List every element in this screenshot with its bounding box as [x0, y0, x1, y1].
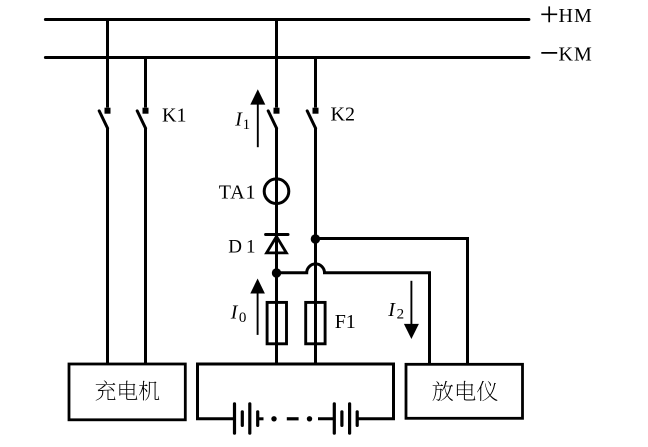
fuse (left, unlabeled) [267, 302, 286, 343]
svg-text:D: D [228, 237, 242, 258]
fuse F1 [306, 302, 325, 343]
wire switch K2 pole 2 through node A and fuse F1 to battery [314, 129, 317, 365]
label I1 [234, 109, 250, 134]
label I2 [387, 299, 404, 323]
diode D1 [266, 235, 288, 253]
junction node A [311, 234, 320, 243]
label 放电仪 [433, 381, 498, 401]
svg-text:K2: K2 [331, 104, 355, 126]
wire +HM bus to switch K2 pole 1 [275, 20, 278, 108]
svg-text:HM: HM [559, 5, 593, 27]
bus +HM [45, 18, 529, 21]
label -KM [541, 43, 592, 65]
svg-text:TA1: TA1 [219, 182, 256, 204]
label I0 [230, 302, 247, 327]
discharge meter box [406, 364, 523, 418]
switch K2 (double-pole) [268, 108, 318, 129]
svg-text:1: 1 [246, 237, 256, 258]
wire switch K1 pole 1 to charger [106, 129, 109, 365]
wire battery stub right [318, 417, 334, 420]
wire switch K1 pole 2 to charger [144, 129, 147, 365]
battery GB cells (left group) [235, 404, 258, 433]
wire -KM bus to switch K2 pole 2 [314, 58, 317, 108]
wire node A to discharge meter [316, 239, 468, 365]
charger box [69, 364, 185, 420]
wire diode D1 through node B and fuse to battery [275, 235, 278, 365]
svg-text:K1: K1 [162, 105, 186, 127]
battery GB cells (right group) [334, 404, 357, 433]
omitted cells dots and dash [271, 416, 312, 421]
wire node B to discharge meter (hop over) [277, 264, 430, 364]
label +HM [541, 5, 592, 27]
wire -KM bus to switch K1 pole 2 [144, 58, 147, 108]
svg-text:F1: F1 [335, 311, 356, 333]
bus -KM [45, 56, 529, 59]
svg-text:I: I [230, 302, 239, 324]
wire battery stub left [258, 417, 264, 420]
label 充电机 [96, 380, 160, 400]
svg-text:KM: KM [559, 43, 593, 65]
current arrow I0 [250, 279, 265, 335]
current arrow I1 [250, 89, 265, 147]
label D1 [228, 237, 255, 258]
wire +HM bus to switch K1 pole 1 [106, 20, 109, 108]
current transformer TA1 [264, 179, 289, 204]
junction node B [272, 268, 281, 277]
svg-text:0: 0 [239, 310, 247, 326]
wire battery enclosure (left lead, top rail, right lead) [198, 364, 394, 419]
svg-text:1: 1 [243, 117, 251, 133]
current arrow I2 [404, 281, 419, 339]
wire switch K2 pole 1 to diode D1 [275, 129, 278, 235]
svg-text:2: 2 [397, 307, 405, 323]
switch K1 (double-pole) [99, 108, 148, 129]
svg-text:I: I [387, 299, 396, 321]
